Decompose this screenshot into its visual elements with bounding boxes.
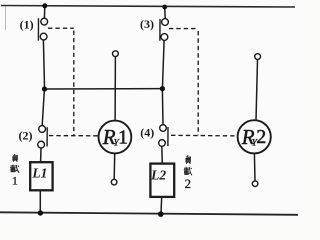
svg-text:(2): (2) (19, 129, 33, 143)
svg-text:2: 2 (256, 126, 266, 148)
svg-text:2: 2 (185, 177, 191, 191)
svg-text:1: 1 (118, 126, 128, 148)
svg-text:L1: L1 (31, 165, 47, 180)
svg-text:(3): (3) (140, 17, 154, 31)
svg-text:(4): (4) (140, 125, 154, 139)
svg-text:(1): (1) (20, 17, 34, 31)
svg-text:1: 1 (12, 174, 18, 188)
svg-text:L2: L2 (150, 167, 166, 182)
